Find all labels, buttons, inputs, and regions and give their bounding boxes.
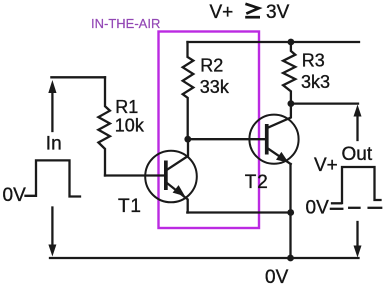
wire 0V bottom rail (50, 257, 359, 259)
output pulse waveform (342, 167, 381, 203)
junction 0V rail (287, 255, 294, 262)
svg-text:0V: 0V (265, 267, 289, 286)
wire T2 emitter to 0V rail (289, 164, 291, 258)
svg-text:R1: R1 (115, 97, 138, 117)
transistor T1 (145, 139, 197, 212)
resistor R2 (183, 42, 194, 139)
wire node A to T2 base (188, 138, 265, 140)
wire R3 to output (291, 102, 358, 104)
highlight box in-the-air section (159, 32, 260, 229)
svg-text:3k3: 3k3 (301, 72, 330, 92)
resistor R1 (98, 77, 110, 175)
output arrow up (354, 105, 362, 141)
junction R3 top (288, 39, 295, 46)
resistor R3 (283, 42, 295, 104)
svg-text:33k: 33k (200, 77, 230, 97)
wire V+ top rail (188, 41, 360, 43)
wire In arrow to R1 top (51, 76, 105, 78)
svg-text:V+: V+ (210, 2, 234, 23)
svg-text:R2: R2 (200, 55, 223, 75)
wire In to 0V rail with down arrow (48, 208, 56, 257)
output 0V dashed level (331, 203, 381, 209)
svg-text:V+: V+ (314, 155, 338, 176)
wire output to 0V rail with down arrow (354, 222, 362, 258)
input pulse waveform (26, 160, 81, 196)
svg-text:0V: 0V (306, 197, 330, 218)
svg-text:IN-THE-AIR: IN-THE-AIR (91, 16, 160, 31)
svg-text:T1: T1 (118, 196, 142, 217)
svg-text:3V: 3V (266, 2, 290, 23)
wire T1 emitter to T2 emitter (187, 211, 290, 213)
wire R1 to T1 base (105, 174, 164, 176)
input arrow up (48, 80, 56, 131)
transistor T2 (249, 104, 298, 164)
svg-text:10k: 10k (115, 115, 145, 135)
svg-text:T2: T2 (245, 172, 269, 193)
junction node A R2/T1 collector/T2 base (184, 136, 191, 143)
junction emitter node (287, 209, 294, 216)
junction R3 bottom (288, 100, 295, 107)
svg-text:In: In (46, 134, 62, 155)
svg-text:R3: R3 (302, 51, 325, 71)
svg-text:Out: Out (342, 144, 373, 165)
svg-text:0V: 0V (3, 185, 27, 206)
